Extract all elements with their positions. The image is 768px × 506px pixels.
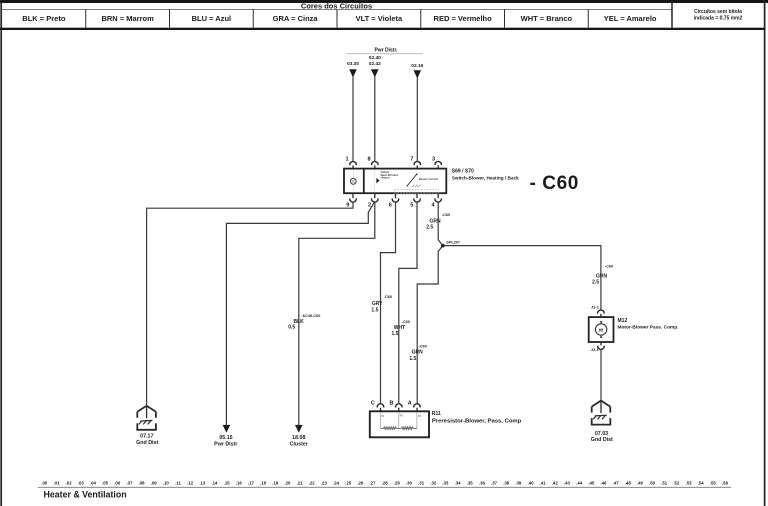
svg-text:0.5: 0.5: [288, 324, 295, 330]
svg-text:.14: .14: [211, 480, 218, 485]
svg-text:1.5: 1.5: [409, 356, 416, 362]
svg-text:Heater & Ventilation: Heater & Ventilation: [44, 490, 127, 500]
svg-text:.34: .34: [455, 480, 462, 485]
svg-text:Pwr Distr: Pwr Distr: [214, 442, 237, 448]
svg-text:.02: .02: [66, 480, 73, 485]
svg-text:- C60: - C60: [530, 173, 579, 194]
svg-text:.47: .47: [613, 480, 620, 485]
svg-text:C: C: [371, 400, 375, 406]
svg-text:.00: .00: [41, 480, 48, 485]
svg-text:.52: .52: [673, 480, 680, 485]
svg-text:B: B: [390, 400, 394, 406]
svg-text:RED = Vermelho: RED = Vermelho: [434, 14, 493, 23]
svg-text:-C60: -C60: [402, 320, 410, 324]
svg-text:-C60: -C60: [384, 295, 392, 299]
svg-text:.49: .49: [637, 480, 644, 485]
svg-text:.56: .56: [722, 480, 729, 485]
svg-text:.23: .23: [321, 480, 328, 485]
svg-text:.32: .32: [430, 480, 437, 485]
svg-text:1: 1: [346, 157, 349, 163]
svg-text:SPL207: SPL207: [446, 241, 460, 245]
svg-text:.01: .01: [53, 480, 60, 485]
svg-text:Cluster: Cluster: [290, 442, 308, 448]
svg-text:.37: .37: [491, 480, 498, 485]
svg-text:BLU = Azul: BLU = Azul: [192, 14, 232, 23]
svg-text:.16: .16: [236, 480, 243, 485]
svg-text:.20: .20: [284, 480, 291, 485]
svg-text:R11: R11: [432, 411, 441, 417]
svg-text:8: 8: [368, 157, 371, 163]
svg-text:M12: M12: [618, 318, 628, 324]
svg-text:VLT = Violeta: VLT = Violeta: [356, 14, 403, 23]
svg-text:02.40: 02.40: [369, 55, 381, 61]
svg-text:.09: .09: [151, 480, 158, 485]
svg-text:.06: .06: [114, 480, 121, 485]
svg-text:.45: .45: [588, 480, 595, 485]
svg-text:.28: .28: [382, 480, 389, 485]
svg-text:.29: .29: [394, 480, 401, 485]
svg-text:02.16: 02.16: [411, 63, 423, 69]
svg-text:Cores dos Circuitos: Cores dos Circuitos: [301, 1, 372, 10]
svg-text:07.03: 07.03: [595, 431, 608, 437]
svg-text:.53: .53: [686, 480, 693, 485]
svg-text:S69 / S70: S69 / S70: [452, 169, 474, 175]
svg-text:.38: .38: [503, 480, 510, 485]
svg-text:YEL = Amarelo: YEL = Amarelo: [604, 14, 657, 23]
svg-text:.05: .05: [102, 480, 109, 485]
svg-text:1.5: 1.5: [392, 331, 399, 337]
svg-text:3: 3: [432, 157, 435, 163]
svg-text:Heated: Heated: [381, 176, 390, 180]
svg-text:.35: .35: [467, 480, 474, 485]
svg-text:6: 6: [389, 202, 392, 208]
svg-text:Gnd Dist: Gnd Dist: [136, 440, 158, 446]
svg-text:.39: .39: [515, 480, 522, 485]
svg-text:GRN: GRN: [596, 273, 608, 279]
svg-text:.26: .26: [357, 480, 364, 485]
svg-text:.55: .55: [710, 480, 717, 485]
svg-text:1.5: 1.5: [371, 307, 378, 313]
svg-text:.36: .36: [479, 480, 486, 485]
svg-text:.11: .11: [175, 480, 181, 485]
svg-text:.12: .12: [187, 480, 194, 485]
svg-text:05.15: 05.15: [219, 435, 232, 441]
svg-text:.25: .25: [345, 480, 352, 485]
svg-text:M: M: [599, 328, 603, 333]
svg-text:GRY: GRY: [372, 301, 383, 307]
svg-text:&C49-C60: &C49-C60: [302, 314, 320, 318]
svg-text:.04: .04: [90, 480, 97, 485]
svg-text:.15: .15: [224, 480, 231, 485]
svg-text:WHT = Branco: WHT = Branco: [521, 14, 573, 23]
svg-text:Pwr Distr.: Pwr Distr.: [374, 48, 398, 54]
svg-text:.18: .18: [260, 480, 267, 485]
svg-text:.19: .19: [272, 480, 279, 485]
svg-text:GRA = Cinza: GRA = Cinza: [273, 14, 319, 23]
svg-text:.44: .44: [576, 480, 583, 485]
svg-text:.08: .08: [139, 480, 146, 485]
svg-text:2.5: 2.5: [426, 225, 433, 231]
svg-text:Blower Control: Blower Control: [419, 177, 439, 181]
svg-text:.50: .50: [649, 480, 656, 485]
svg-text:.13: .13: [199, 480, 206, 485]
svg-text:.46: .46: [600, 480, 607, 485]
svg-text:indicada = 0,75 mm2: indicada = 0,75 mm2: [694, 16, 743, 22]
svg-text:03.30: 03.30: [347, 61, 359, 67]
svg-text:BLK = Preto: BLK = Preto: [22, 14, 66, 23]
svg-text:.17: .17: [248, 480, 255, 485]
svg-text:.24: .24: [333, 480, 340, 485]
svg-text:.03: .03: [78, 480, 85, 485]
svg-text:.40: .40: [528, 480, 535, 485]
svg-text:GRN: GRN: [429, 219, 441, 225]
svg-text:-C60: -C60: [442, 213, 450, 217]
svg-text:.27: .27: [369, 480, 376, 485]
svg-text:.21: .21: [297, 480, 304, 485]
svg-text:7: 7: [410, 157, 413, 163]
svg-text:.48: .48: [625, 480, 632, 485]
svg-text:.33: .33: [442, 480, 449, 485]
svg-text:A: A: [408, 400, 412, 406]
svg-text:GRN: GRN: [412, 350, 424, 356]
svg-text:Preresistor-Blower, Pass. Comp: Preresistor-Blower, Pass. Comp: [432, 419, 522, 425]
svg-text:.22: .22: [309, 480, 316, 485]
svg-text:.42: .42: [552, 480, 559, 485]
svg-text:.30: .30: [406, 480, 413, 485]
svg-text:Gnd Dist: Gnd Dist: [591, 437, 613, 443]
svg-text:2.5: 2.5: [592, 280, 599, 286]
svg-text:07.17: 07.17: [140, 434, 153, 440]
svg-text:.31: .31: [418, 480, 425, 485]
svg-text:Motor-Blower Pass. Comp.: Motor-Blower Pass. Comp.: [618, 325, 679, 331]
svg-text:18.08: 18.08: [292, 435, 305, 441]
svg-text:-C60: -C60: [605, 264, 613, 268]
svg-text:5: 5: [410, 202, 413, 208]
svg-text:Circuitos sem bitola: Circuitos sem bitola: [694, 9, 742, 15]
svg-text:Switch-Blower, Heating / Back: Switch-Blower, Heating / Back: [452, 175, 519, 180]
svg-text:9: 9: [346, 202, 349, 208]
svg-text:.51: .51: [661, 480, 668, 485]
svg-text:.43: .43: [564, 480, 571, 485]
svg-text:J2-1: J2-1: [591, 347, 600, 352]
svg-text:.07: .07: [126, 480, 133, 485]
svg-text:.54: .54: [698, 480, 705, 485]
svg-text:.41: .41: [540, 480, 547, 485]
svg-text:.10: .10: [163, 480, 170, 485]
svg-text:02.42: 02.42: [369, 61, 381, 67]
svg-text:-C60: -C60: [419, 344, 427, 348]
svg-text:J1-1: J1-1: [591, 305, 600, 310]
svg-text:BRN = Marrom: BRN = Marrom: [101, 14, 154, 23]
